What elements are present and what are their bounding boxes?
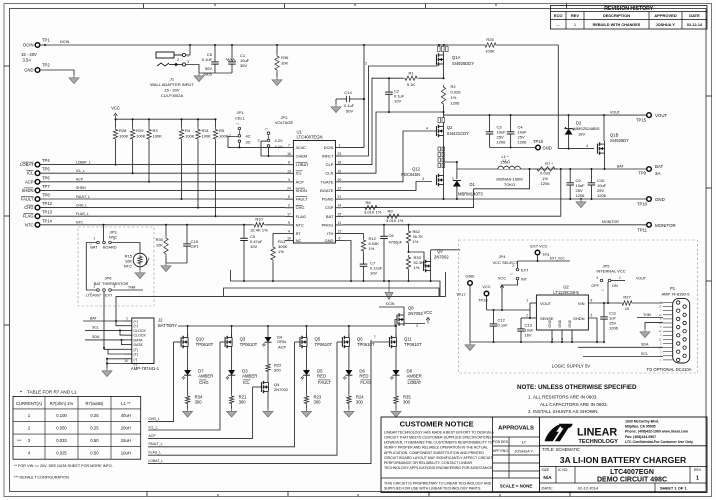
svg-text:0.050: 0.050 — [56, 426, 67, 431]
svg-text:3: 3 — [288, 178, 290, 182]
svg-text:BAT: BAT — [617, 164, 625, 168]
svg-text:892NAS-150M: 892NAS-150M — [496, 177, 522, 182]
SW node pin stack — [438, 140, 445, 174]
wire FLAG_L line — [40, 215, 285, 217]
wire ACP gate line Q4 — [253, 386, 262, 388]
svg-text:3.01K 1%: 3.01K 1% — [364, 210, 382, 215]
ground LED column D3 — [231, 409, 233, 412]
wire J2 T2 pin — [104, 348, 124, 349]
capacitor C13 10uF 16V — [517, 318, 534, 343]
wire ICL_L gate line Q3 — [220, 341, 226, 343]
svg-text:3.01K 1%: 3.01K 1% — [386, 218, 404, 223]
svg-text:3: 3 — [416, 324, 418, 328]
wire SCL to J2 — [85, 329, 124, 331]
svg-text:FLAG: FLAG — [23, 214, 34, 219]
svg-text:(T): (T) — [134, 353, 139, 357]
transistor Q6 TP0610T LED driver — [342, 325, 375, 370]
wire J2 minus pins to ground — [107, 359, 124, 368]
svg-text:1%: 1% — [451, 95, 457, 100]
resistor R24 300 — [347, 394, 365, 409]
svg-text:JP6: JP6 — [105, 276, 113, 281]
transistor Q9 2N7002 — [409, 249, 450, 282]
svg-text:LOBAT: LOBAT — [408, 380, 422, 385]
svg-text:TP6: TP6 — [42, 175, 50, 180]
wire SDA to J2 — [85, 339, 124, 341]
svg-text:JP1: JP1 — [237, 110, 245, 115]
test point TP13 (FLAG) — [23, 210, 53, 219]
resistor R52 26.7K — [406, 225, 423, 253]
wire logic ground bus — [470, 341, 604, 343]
svg-text:R3: R3 — [153, 128, 159, 133]
svg-text:TECHNOLOGY APPLICATIONS ENGINE: TECHNOLOGY APPLICATIONS ENGINEERING FOR … — [384, 466, 493, 470]
svg-text:10uH: 10uH — [121, 451, 131, 456]
svg-text:4C: 4C — [246, 134, 251, 139]
svg-text:***: *** — [17, 439, 22, 443]
svg-text:LOBAT_L: LOBAT_L — [149, 459, 164, 463]
svg-text:R25: R25 — [486, 37, 494, 42]
svg-text:2: 2 — [365, 62, 367, 66]
svg-text:10V: 10V — [370, 271, 377, 276]
svg-text:BAT: BAT — [326, 214, 334, 219]
svg-text:R7 *: R7 * — [545, 161, 553, 166]
svg-text:CHG: CHG — [24, 205, 33, 210]
svg-text:ICL_L: ICL_L — [149, 425, 158, 429]
svg-text:3A LI-ION BATTERY CHARGER: 3A LI-ION BATTERY CHARGER — [560, 455, 687, 465]
wire Q1B gate line — [558, 148, 594, 150]
svg-text:C14: C14 — [344, 90, 352, 95]
svg-text:** FOR VIN <= 20V. SEE DATA SH: ** FOR VIN <= 20V. SEE DATA SHEET FOR MO… — [14, 464, 113, 468]
jumper JP5 INTERNAL VCC — [591, 264, 646, 293]
wire PROG/MONITOR line — [343, 224, 649, 226]
svg-text:12: 12 — [338, 230, 342, 234]
svg-text:TP15: TP15 — [636, 118, 647, 123]
svg-text:1206: 1206 — [451, 101, 461, 106]
svg-text:4: 4 — [288, 230, 290, 234]
ground main bus — [388, 281, 390, 293]
ground LED column D7 — [187, 409, 189, 412]
svg-text:0.1uF: 0.1uF — [202, 57, 213, 62]
svg-text:0.100: 0.100 — [56, 413, 67, 418]
connector J1 wall adapter — [150, 52, 194, 98]
transistor Q3 TP0610T LED driver — [225, 325, 258, 370]
wire inner loop — [224, 288, 440, 296]
capacitor C10 — [588, 168, 607, 199]
dashed box logic supply — [459, 240, 698, 373]
ground J1/C8/C1 — [198, 73, 200, 76]
svg-text:GND: GND — [558, 319, 562, 327]
svg-text:10: 10 — [287, 237, 291, 241]
svg-text:CIRCUIT THAT MEETS CUSTOMER-SU: CIRCUIT THAT MEETS CUSTOMER-SUPPLIED SPE… — [384, 436, 493, 440]
test point TP16 GND — [533, 139, 552, 151]
capacitor C9 — [566, 168, 585, 199]
svg-text:REV: REV — [571, 13, 580, 18]
svg-text:APP ENG.: APP ENG. — [493, 449, 509, 453]
svg-text:100K: 100K — [153, 134, 163, 139]
wire CLP pin18 to R1 — [343, 78, 403, 164]
svg-text:2: 2 — [526, 314, 528, 318]
svg-text:SCALE = NONE: SCALE = NONE — [500, 484, 533, 489]
svg-text:8: 8 — [288, 161, 290, 165]
svg-text:Milpitas, CA 95035: Milpitas, CA 95035 — [625, 425, 656, 429]
svg-text:TP0610T: TP0610T — [240, 342, 258, 347]
svg-text:Fax: (408)434-0507: Fax: (408)434-0507 — [625, 435, 656, 439]
svg-text:INTERNAL VCC: INTERNAL VCC — [596, 269, 625, 274]
wire ground bus — [231, 270, 441, 296]
wire J2 T pin stub — [108, 349, 124, 354]
svg-text:TP14: TP14 — [42, 218, 53, 223]
svg-text:R31: R31 — [202, 128, 210, 133]
ground P1 — [644, 329, 646, 332]
svg-text:1%: 1% — [369, 246, 375, 251]
wire EXT_VCC line — [518, 260, 571, 262]
resistor R8 3.01K — [363, 200, 382, 215]
svg-text:BAT: BAT — [90, 316, 98, 320]
LED D4 GRN (ACP) — [262, 325, 286, 362]
svg-text:18V: 18V — [578, 132, 585, 137]
transistor Q2 SI4431CDY (top switch) — [437, 115, 470, 140]
svg-text:BAT: BAT — [90, 246, 98, 250]
svg-text:5: 5 — [288, 195, 290, 199]
svg-text:TECHNOLOGY: TECHNOLOGY — [579, 439, 619, 445]
wire ICL_L line — [40, 172, 285, 174]
resistor R10 32.4K — [103, 217, 286, 233]
svg-text:MONITOR: MONITOR — [602, 220, 619, 224]
svg-text:HOWEVER, IT REMAINS THE CUSTOM: HOWEVER, IT REMAINS THE CUSTOMER'S RESPO… — [384, 441, 493, 445]
svg-text:TO OPTIONAL DC410A: TO OPTIONAL DC410A — [647, 367, 692, 372]
svg-text:*** DEFAULT CONFIGURATION: *** DEFAULT CONFIGURATION — [14, 476, 69, 480]
wire VCC rail — [116, 118, 216, 120]
svg-text:PERFORMANCE OR RELIABILITY. C: PERFORMANCE OR RELIABILITY. CONTACT LINE… — [384, 461, 473, 465]
resistor R5 100K pull-up — [213, 118, 228, 217]
svg-text:SI4925DY: SI4925DY — [610, 138, 629, 143]
svg-text:OFF: OFF — [591, 284, 599, 288]
svg-text:R28: R28 — [119, 128, 127, 133]
dashed box battery thermistor — [78, 227, 154, 306]
svg-text:DATA: DATA — [134, 343, 144, 347]
svg-text:0.25: 0.25 — [90, 413, 99, 418]
resistor R29 100K pull-up — [130, 118, 145, 174]
capacitor C14 — [336, 90, 365, 114]
LED D6 RED — [343, 369, 372, 395]
wire J2 positive sense riser — [115, 296, 117, 321]
svg-text:100K: 100K — [185, 134, 195, 139]
net stub LOBAT_L — [148, 340, 371, 464]
svg-text:100K: 100K — [136, 134, 146, 139]
diode D2 MMSZ5248BS zener — [565, 115, 600, 150]
wire JP3 pin1 to JP6 pin1 — [86, 243, 96, 291]
svg-text:R5: R5 — [219, 128, 225, 133]
svg-text:20: 20 — [338, 178, 342, 182]
resistor R7 battery sense — [529, 161, 562, 186]
jumper JP2 VOLTAGE — [258, 115, 294, 149]
wire R25 to Q1B gate rail — [498, 45, 558, 149]
test point TP9 BAT — [638, 164, 663, 176]
svg-text:MMSZ5248BS: MMSZ5248BS — [574, 126, 600, 131]
svg-text:02-12-14: 02-12-14 — [687, 23, 703, 27]
svg-text:BAT THERMISTOR: BAT THERMISTOR — [94, 281, 129, 286]
svg-text:EXT_VCC: EXT_VCC — [550, 256, 565, 260]
transistor Q4 2N7002 — [262, 381, 289, 409]
svg-text:SI4431CDY: SI4431CDY — [447, 131, 469, 136]
svg-text:BAT: BAT — [655, 164, 664, 169]
svg-text:LINEAR TECHNOLOGY HAS MADE A B: LINEAR TECHNOLOGY HAS MADE A BEST EFFORT… — [384, 431, 494, 435]
wire U2 VIN line — [588, 302, 617, 304]
svg-text:LTC4007: LTC4007 — [86, 294, 101, 298]
wire NTC line — [40, 224, 252, 226]
op-amp U2 LT1129CS8-5 (LDO) — [536, 285, 592, 343]
net stub FLAG_L — [148, 342, 337, 455]
svg-text:20uH: 20uH — [121, 426, 131, 431]
svg-text:0805: 0805 — [203, 72, 213, 77]
svg-text:2: 2 — [512, 264, 514, 268]
wire JP1 to U1 pin7 (3C4C) — [228, 137, 285, 148]
resistor R25 100K — [483, 37, 498, 54]
svg-text:10K: 10K — [156, 243, 163, 248]
svg-text:ACP: ACP — [149, 434, 157, 438]
wire PGND rail — [343, 198, 649, 200]
wire CSP kelvin sense — [343, 169, 530, 208]
svg-text:Phone: (408)432-1900 www.lin: Phone: (408)432-1900 www.linear.com — [625, 430, 688, 434]
svg-text:3A: 3A — [655, 171, 660, 176]
svg-text:Q11: Q11 — [404, 337, 412, 342]
test point TP7 (SHDN) — [22, 184, 51, 193]
svg-text:2: 2 — [288, 204, 290, 208]
svg-text:1206: 1206 — [541, 181, 551, 186]
wire DCIN pin1 riser — [343, 45, 364, 147]
svg-text:WALL ADAPTER INPUT: WALL ADAPTER INPUT — [150, 82, 194, 87]
svg-text:ACP: ACP — [296, 179, 305, 184]
svg-text:LTC4007EGN: LTC4007EGN — [610, 469, 654, 476]
wire VOUT power rail — [444, 114, 650, 116]
svg-text:VOUT: VOUT — [655, 113, 668, 118]
table R7/L1 grid — [13, 396, 141, 459]
wire SW to L1 / BAT line — [457, 168, 649, 170]
ground LED column D4 — [267, 409, 269, 412]
svg-text:24: 24 — [287, 187, 291, 191]
svg-text:CHG_L: CHG_L — [149, 417, 160, 421]
svg-text:FLAG_L: FLAG_L — [76, 212, 89, 216]
svg-text:DATE: DATE — [689, 13, 700, 18]
svg-text:15: 15 — [338, 212, 342, 216]
svg-text:REVISION HISTORY: REVISION HISTORY — [604, 6, 654, 12]
svg-text:TP7: TP7 — [42, 184, 50, 189]
svg-text:2N7002: 2N7002 — [408, 311, 423, 316]
svg-text:10V: 10V — [250, 244, 257, 249]
svg-text:40uH: 40uH — [121, 413, 131, 418]
svg-text:Q10: Q10 — [196, 337, 205, 342]
svg-text:TP0610T: TP0610T — [404, 342, 422, 347]
test point TP4 (LOBAT) — [20, 158, 50, 167]
ground logic bus — [469, 342, 471, 345]
svg-text:R1: R1 — [408, 71, 414, 76]
wire P1 THM line — [637, 317, 663, 319]
svg-text:SHDN: SHDN — [76, 186, 86, 190]
svg-text:0.25: 0.25 — [90, 426, 99, 431]
resistor R27 10 — [617, 295, 663, 312]
wire SHDN line — [40, 189, 285, 191]
svg-text:FLAG: FLAG — [360, 380, 372, 385]
svg-text:17: 17 — [287, 212, 291, 216]
svg-text:TP17: TP17 — [456, 292, 466, 297]
svg-text:3: 3 — [422, 177, 424, 181]
svg-text:2: 2 — [177, 58, 179, 62]
capacitor C6 4700pF — [380, 225, 402, 282]
svg-text:TP16: TP16 — [533, 139, 544, 144]
transistor Q5 TP0610T LED driver — [300, 325, 333, 370]
net stub CHG_L — [148, 342, 174, 422]
table header TABLE FOR R7 AND L1 — [20, 390, 77, 395]
ground PGND rail — [580, 199, 582, 202]
svg-text:INT: INT — [521, 278, 528, 282]
svg-text:50V: 50V — [205, 66, 212, 71]
wire FAULT_L gate line Q5 — [295, 341, 301, 343]
svg-text:TP9: TP9 — [638, 171, 646, 176]
wire LED supply rail — [178, 325, 395, 327]
svg-text:NTC: NTC — [25, 222, 34, 227]
svg-text:(-): (-) — [134, 357, 138, 361]
transistor Q8 2N7002 (VCC switch) — [379, 302, 425, 328]
svg-text:FLAG: FLAG — [296, 214, 306, 219]
revision history table — [551, 6, 708, 30]
svg-text:PCB DES.: PCB DES. — [493, 440, 509, 444]
svg-text:NC: NC — [296, 238, 302, 243]
svg-text:RED: RED — [359, 374, 368, 379]
wire battery sense loop — [116, 272, 446, 296]
svg-text:2N7002: 2N7002 — [274, 387, 289, 392]
svg-text:100K: 100K — [485, 49, 495, 54]
svg-text:1: 1 — [374, 335, 376, 339]
svg-text:R7(watts): R7(watts) — [86, 401, 105, 406]
svg-text:15 - 20V: 15 - 20V — [21, 52, 37, 57]
wire J1 pin1 to DCIN — [186, 45, 190, 55]
svg-text:TP0610T: TP0610T — [196, 342, 214, 347]
wire JP5 to VIN rail — [607, 282, 609, 303]
svg-text:VCC SELECT: VCC SELECT — [492, 260, 518, 265]
resistor R28 100K pull-up — [113, 118, 128, 165]
wire BGATE label — [0, 0, 1, 1]
svg-text:BGATE: BGATE — [320, 188, 334, 193]
svg-text:1: 1 — [526, 299, 528, 303]
svg-text:ICL: ICL — [27, 171, 34, 176]
wire VCC node down — [501, 291, 503, 310]
svg-text:TP2: TP2 — [42, 63, 50, 68]
svg-text:CUSTOMER NOTICE: CUSTOMER NOTICE — [400, 420, 474, 429]
svg-text:FAULT_L: FAULT_L — [76, 195, 90, 199]
svg-text:1: 1 — [338, 143, 340, 147]
test point TP3 EXT VCC — [530, 244, 550, 263]
wire DCIN from TP1 — [40, 44, 483, 46]
svg-text:PROG: PROG — [322, 222, 334, 227]
svg-text:SHDN: SHDN — [22, 188, 34, 193]
svg-text:3.5A: 3.5A — [23, 58, 32, 63]
svg-text:L1 **: L1 ** — [121, 401, 130, 406]
svg-text:4: 4 — [426, 127, 428, 131]
svg-text:2N7002: 2N7002 — [434, 255, 449, 260]
svg-text:D1: D1 — [470, 182, 476, 187]
test point TP6 (ACP) — [25, 175, 50, 184]
svg-text:3C: 3C — [246, 139, 251, 144]
svg-text:Q1A: Q1A — [452, 55, 461, 60]
resistor R4 100K pull-up — [179, 118, 194, 200]
transistor Q1B SI4925DY (output PFET) — [598, 115, 630, 170]
svg-text:15uH: 15uH — [121, 438, 131, 443]
svg-text:3C4C: 3C4C — [296, 145, 306, 150]
svg-text:CLOCK: CLOCK — [134, 329, 147, 333]
svg-text:NTC: NTC — [76, 221, 84, 225]
svg-text:DATA: DATA — [134, 338, 144, 342]
svg-text:100K: 100K — [202, 134, 212, 139]
svg-text:D2: D2 — [576, 121, 582, 126]
svg-text:4.1V: 4.1V — [275, 144, 284, 149]
test point TP1 — [21, 38, 50, 63]
svg-text:9: 9 — [288, 221, 290, 225]
svg-text:300: 300 — [356, 400, 364, 405]
ground LED column D8 — [395, 409, 397, 412]
svg-text:0.033: 0.033 — [56, 438, 67, 443]
resistor R35 300 — [394, 394, 412, 409]
resistor R33 52.3K — [406, 255, 424, 282]
svg-text:DCIN: DCIN — [23, 43, 33, 48]
wire J2 plus2 — [116, 321, 124, 326]
svg-text:JP4: JP4 — [499, 254, 507, 259]
test point TP18 VCC — [478, 284, 491, 310]
inductor L1 15uH — [496, 158, 522, 187]
ground J2 — [106, 368, 108, 371]
diode D1 MBRM140T3 — [444, 162, 484, 200]
svg-text:2. INSTALL SHUNTS AS SHOWN.: 2. INSTALL SHUNTS AS SHOWN. — [528, 409, 599, 414]
svg-text:P1: P1 — [670, 286, 676, 291]
svg-text:R8: R8 — [365, 200, 371, 205]
ground C14 — [335, 99, 337, 104]
svg-text:16: 16 — [287, 152, 291, 156]
resistor R9 3.01K — [385, 209, 404, 224]
svg-text:*: * — [20, 390, 22, 395]
svg-text:SHEET 1 OF 1: SHEET 1 OF 1 — [660, 486, 687, 491]
wire Q8 source to LED rail — [395, 320, 397, 327]
test point TP15 VOUT — [636, 113, 668, 123]
svg-text:1%: 1% — [413, 239, 419, 244]
svg-text:NOTE: UNLESS OTHERWISE SPECIFI: NOTE: UNLESS OTHERWISE SPECIFIED — [517, 384, 637, 391]
svg-text:0.028: 0.028 — [451, 90, 462, 95]
wire ACP line — [40, 181, 285, 183]
svg-text:R29: R29 — [136, 128, 144, 133]
ground LED column D6 — [348, 409, 350, 412]
svg-text:FDC645N: FDC645N — [401, 172, 420, 177]
svg-text:CLP: CLP — [326, 162, 334, 167]
svg-text:Q5: Q5 — [315, 337, 321, 342]
svg-text:10V: 10V — [394, 99, 401, 104]
resistor R3 100K pull-up — [147, 118, 162, 183]
svg-text:CLN: CLN — [325, 171, 333, 176]
wire U2 SHDN — [588, 318, 597, 342]
svg-text:OPT: OPT — [191, 244, 200, 249]
svg-text:TP4: TP4 — [42, 158, 50, 163]
wire LOBAT_L gate line Q11 — [371, 341, 390, 343]
label L1 value — [500, 154, 510, 164]
svg-text:EXT: EXT — [105, 294, 113, 298]
svg-text:DATE:: DATE: — [542, 486, 553, 491]
svg-text:CHG: CHG — [296, 205, 305, 210]
svg-text:300: 300 — [403, 400, 411, 405]
svg-text:Q8: Q8 — [408, 306, 414, 311]
svg-text:1: 1 — [619, 276, 621, 280]
wire BAT kelvin sense — [343, 169, 561, 216]
svg-text:VIN: VIN — [578, 301, 585, 306]
svg-text:CHEM: CHEM — [296, 153, 308, 158]
transistor Q10 TP0610T LED driver — [181, 325, 214, 370]
svg-text:TP0610T: TP0610T — [357, 342, 375, 347]
svg-text:INFET: INFET — [322, 153, 334, 158]
